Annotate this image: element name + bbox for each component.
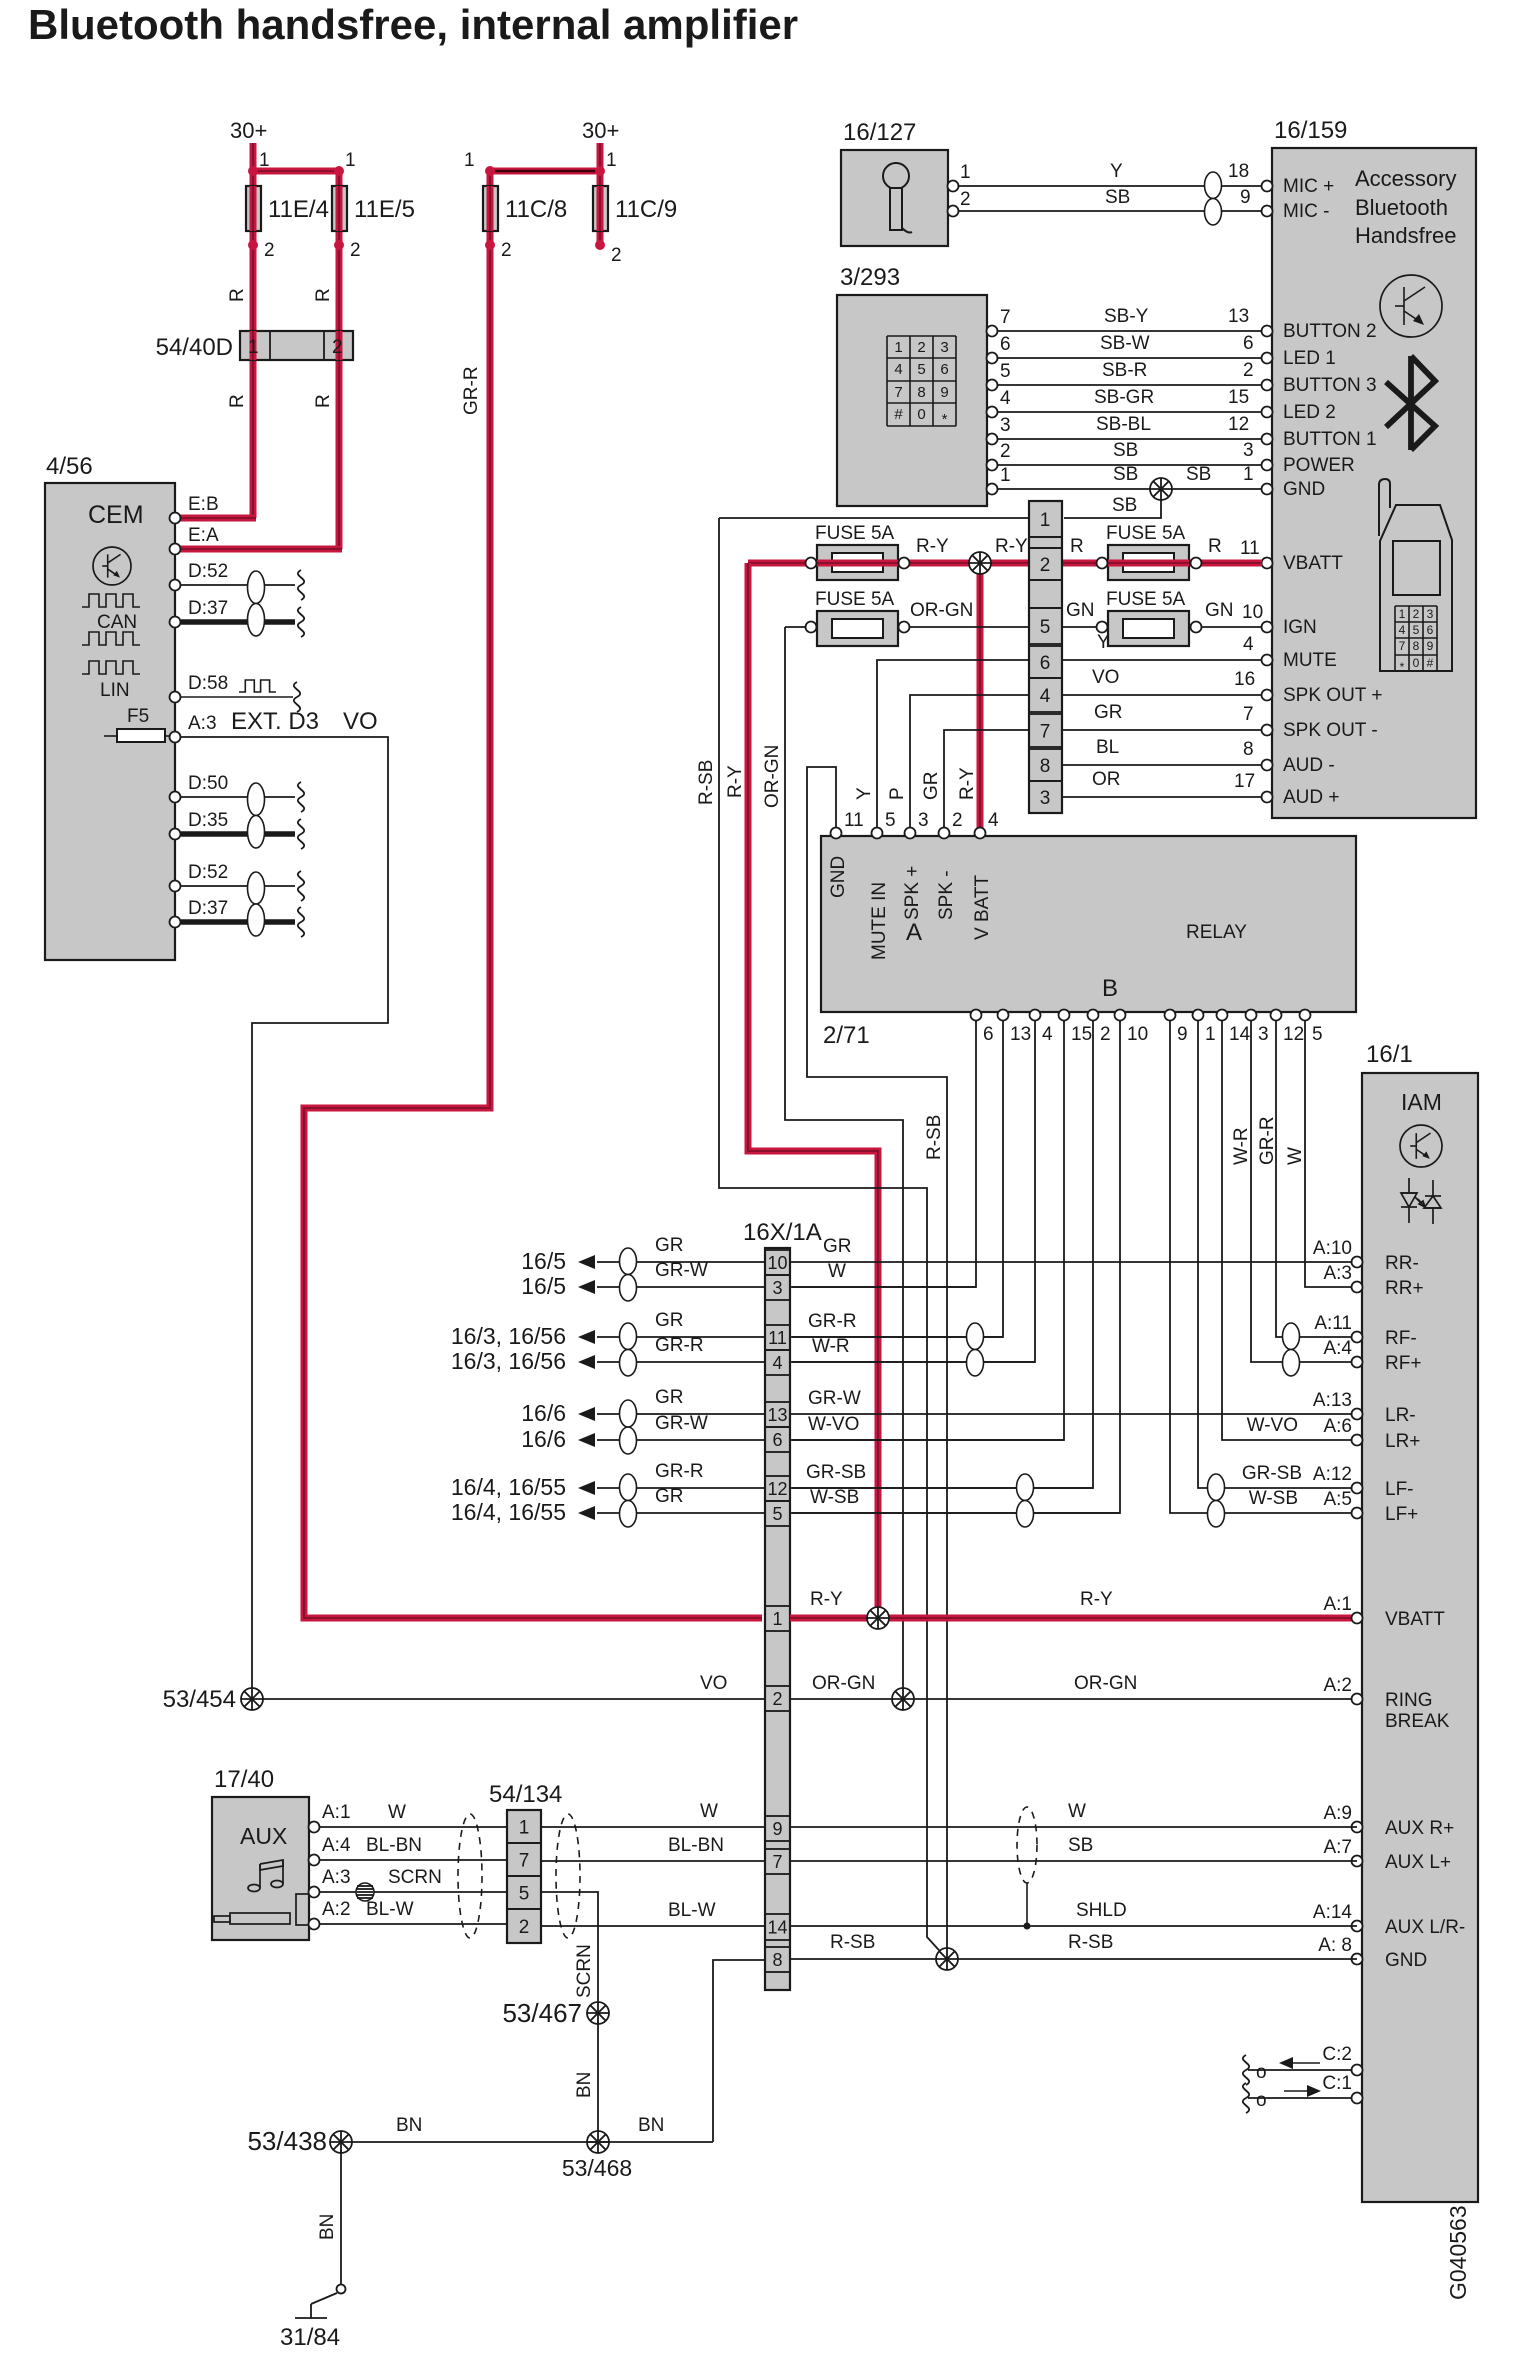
svg-text:4: 4 [1040, 686, 1051, 707]
svg-text:BUTTON 3: BUTTON 3 [1283, 375, 1377, 396]
svg-text:A:11: A:11 [1314, 1313, 1352, 1334]
svg-text:16/1: 16/1 [1366, 1041, 1413, 1068]
svg-text:31/84: 31/84 [280, 2324, 340, 2351]
svg-text:A:2: A:2 [1323, 1675, 1352, 1696]
svg-text:SPK OUT +: SPK OUT + [1283, 685, 1382, 706]
svg-text:SPK OUT -: SPK OUT - [1283, 720, 1378, 741]
svg-text:R-SB: R-SB [830, 1932, 875, 1953]
svg-text:4: 4 [1042, 1024, 1053, 1045]
svg-text:*: * [1400, 660, 1405, 674]
svg-text:9: 9 [1240, 187, 1251, 208]
svg-text:LED 1: LED 1 [1283, 348, 1336, 369]
svg-text:6: 6 [940, 361, 948, 378]
svg-text:RR+: RR+ [1385, 1278, 1424, 1299]
svg-text:16/159: 16/159 [1274, 117, 1347, 144]
svg-text:A:1: A:1 [1323, 1594, 1352, 1615]
svg-text:Y: Y [1110, 161, 1123, 182]
svg-text:5: 5 [1000, 361, 1011, 382]
svg-text:W: W [1068, 1801, 1086, 1822]
svg-text:GR-W: GR-W [808, 1388, 861, 1409]
svg-text:W-R: W-R [1231, 1127, 1252, 1165]
svg-text:SB: SB [1105, 187, 1130, 208]
svg-text:GR-R: GR-R [655, 1335, 704, 1356]
svg-text:5: 5 [772, 1504, 782, 1524]
svg-text:0: 0 [917, 406, 925, 423]
svg-text:16/4, 16/55: 16/4, 16/55 [451, 1474, 566, 1500]
svg-text:7: 7 [894, 384, 902, 401]
svg-text:SPK +: SPK + [902, 866, 923, 920]
svg-text:W-R: W-R [812, 1336, 850, 1357]
svg-text:GND: GND [1283, 479, 1325, 500]
svg-text:A:3: A:3 [322, 1867, 351, 1888]
svg-text:16/3, 16/56: 16/3, 16/56 [451, 1323, 566, 1349]
svg-text:10: 10 [1242, 602, 1263, 623]
svg-text:A:6: A:6 [1323, 1416, 1352, 1437]
svg-text:10: 10 [767, 1253, 787, 1273]
svg-text:7: 7 [1399, 639, 1406, 653]
svg-text:R-Y: R-Y [995, 536, 1028, 557]
svg-text:4: 4 [772, 1353, 782, 1373]
svg-text:11C/8: 11C/8 [505, 196, 567, 223]
svg-text:Accessory: Accessory [1355, 166, 1456, 191]
svg-text:2: 2 [772, 1689, 782, 1709]
svg-text:3: 3 [918, 810, 929, 831]
svg-text:Handsfree: Handsfree [1355, 223, 1457, 248]
svg-text:13: 13 [1228, 306, 1249, 327]
svg-text:D:52: D:52 [188, 561, 228, 582]
svg-text:16/6: 16/6 [521, 1400, 566, 1426]
svg-text:Y: Y [854, 787, 875, 800]
svg-text:2: 2 [1000, 441, 1011, 462]
svg-text:53/468: 53/468 [562, 2155, 632, 2181]
svg-text:MIC -: MIC - [1283, 201, 1329, 222]
svg-text:GR-SB: GR-SB [806, 1462, 866, 1483]
svg-text:6: 6 [983, 1024, 994, 1045]
svg-text:2: 2 [332, 337, 343, 358]
svg-text:B: B [1102, 975, 1118, 1002]
svg-text:5: 5 [519, 1884, 530, 1905]
svg-text:D:37: D:37 [188, 598, 228, 619]
svg-text:SB: SB [1113, 440, 1138, 461]
svg-text:16/5: 16/5 [521, 1248, 566, 1274]
svg-text:RF+: RF+ [1385, 1353, 1421, 1374]
svg-text:LF+: LF+ [1385, 1504, 1418, 1525]
svg-text:9: 9 [1177, 1024, 1188, 1045]
svg-text:LR-: LR- [1385, 1405, 1416, 1426]
svg-text:2: 2 [611, 245, 622, 266]
svg-text:D:58: D:58 [188, 673, 228, 694]
svg-text:3: 3 [1243, 440, 1254, 461]
svg-text:BL-W: BL-W [366, 1899, 414, 1920]
svg-text:A:4: A:4 [1323, 1338, 1352, 1359]
svg-text:2: 2 [350, 240, 361, 261]
svg-text:2: 2 [1413, 607, 1420, 621]
svg-text:LR+: LR+ [1385, 1431, 1420, 1452]
svg-text:R: R [1070, 536, 1084, 557]
svg-text:GN: GN [1205, 600, 1234, 621]
svg-text:E:A: E:A [188, 525, 219, 546]
svg-text:A:2: A:2 [322, 1899, 351, 1920]
svg-text:OR-GN: OR-GN [762, 745, 783, 808]
svg-text:8: 8 [1040, 756, 1051, 777]
svg-text:SPK -: SPK - [936, 870, 957, 920]
svg-text:2: 2 [264, 240, 275, 261]
svg-text:BUTTON 2: BUTTON 2 [1283, 321, 1377, 342]
svg-text:8: 8 [1413, 639, 1420, 653]
svg-text:16: 16 [1234, 669, 1255, 690]
svg-text:MIC +: MIC + [1283, 176, 1334, 197]
svg-text:30+: 30+ [230, 118, 267, 143]
svg-text:SB-W: SB-W [1100, 333, 1150, 354]
svg-text:BUTTON 1: BUTTON 1 [1283, 429, 1377, 450]
svg-text:R: R [313, 288, 334, 302]
svg-text:GR: GR [655, 1310, 684, 1331]
svg-text:A:3: A:3 [1323, 1263, 1352, 1284]
svg-text:CEM: CEM [88, 501, 144, 529]
svg-text:R-Y: R-Y [1080, 1589, 1113, 1610]
svg-text:16/5: 16/5 [521, 1273, 566, 1299]
svg-text:3: 3 [1258, 1024, 1269, 1045]
svg-text:A: A [906, 919, 922, 946]
svg-text:SB: SB [1113, 464, 1138, 485]
svg-text:8: 8 [1243, 739, 1254, 760]
svg-text:FUSE 5A: FUSE 5A [1106, 523, 1186, 544]
svg-text:7: 7 [519, 1851, 530, 1872]
svg-text:1: 1 [1243, 464, 1254, 485]
svg-text:VO: VO [700, 1673, 727, 1694]
svg-text:2: 2 [501, 240, 512, 261]
svg-text:5: 5 [917, 361, 925, 378]
svg-text:GR: GR [823, 1236, 852, 1257]
svg-text:16/6: 16/6 [521, 1426, 566, 1452]
svg-text:POWER: POWER [1283, 455, 1355, 476]
svg-text:7: 7 [1000, 307, 1011, 328]
svg-text:A:4: A:4 [322, 1835, 351, 1856]
svg-text:W: W [388, 1802, 406, 1823]
svg-text:GR-W: GR-W [655, 1260, 708, 1281]
svg-text:GR-R: GR-R [1257, 1116, 1278, 1165]
svg-text:GR-R: GR-R [461, 366, 482, 415]
svg-text:A:10: A:10 [1313, 1238, 1352, 1259]
svg-text:BN: BN [317, 2214, 338, 2240]
svg-text:R-SB: R-SB [696, 760, 717, 805]
svg-text:BL-BN: BL-BN [668, 1835, 724, 1856]
svg-text:AUD -: AUD - [1283, 755, 1335, 776]
svg-text:GR-R: GR-R [808, 1311, 857, 1332]
svg-text:SB: SB [1186, 464, 1211, 485]
svg-text:12: 12 [767, 1479, 787, 1499]
svg-text:R-Y: R-Y [725, 765, 746, 798]
svg-text:6: 6 [1243, 333, 1254, 354]
svg-text:BN: BN [396, 2115, 422, 2136]
svg-text:8: 8 [772, 1950, 782, 1970]
svg-text:1: 1 [772, 1609, 782, 1629]
svg-text:16X/1A: 16X/1A [743, 1219, 822, 1246]
svg-text:13: 13 [1010, 1024, 1031, 1045]
svg-text:1: 1 [960, 162, 971, 183]
svg-text:17: 17 [1234, 771, 1255, 792]
svg-text:SB-R: SB-R [1102, 360, 1147, 381]
svg-text:1: 1 [1000, 465, 1011, 486]
svg-text:AUX R+: AUX R+ [1385, 1818, 1454, 1839]
svg-text:D:35: D:35 [188, 810, 228, 831]
svg-text:A:5: A:5 [1323, 1489, 1352, 1510]
svg-text:MUTE: MUTE [1283, 650, 1337, 671]
svg-text:14: 14 [767, 1918, 787, 1938]
svg-text:2: 2 [917, 339, 925, 356]
svg-text:W-SB: W-SB [1249, 1488, 1298, 1509]
svg-text:D:52: D:52 [188, 862, 228, 883]
svg-text:LF-: LF- [1385, 1479, 1414, 1500]
svg-text:2/71: 2/71 [823, 1022, 870, 1049]
svg-text:AUD +: AUD + [1283, 787, 1340, 808]
svg-text:53/438: 53/438 [247, 2126, 327, 2156]
svg-text:*: * [942, 411, 948, 428]
svg-text:1: 1 [519, 1818, 530, 1839]
svg-text:Bluetooth: Bluetooth [1355, 195, 1448, 220]
svg-text:11: 11 [844, 810, 864, 831]
svg-text:VO: VO [343, 708, 378, 735]
svg-text:IGN: IGN [1283, 617, 1317, 638]
svg-text:1: 1 [259, 150, 270, 171]
svg-text:AUX: AUX [240, 1823, 287, 1849]
svg-text:SHLD: SHLD [1076, 1900, 1127, 1921]
svg-text:Y: Y [1097, 632, 1110, 653]
svg-text:53/467: 53/467 [502, 1998, 582, 2028]
svg-text:A:12: A:12 [1313, 1464, 1352, 1485]
svg-text:3: 3 [940, 339, 948, 356]
svg-text:SB: SB [1068, 1835, 1093, 1856]
svg-text:W-VO: W-VO [808, 1414, 859, 1435]
svg-text:11: 11 [768, 1328, 787, 1348]
svg-text:R: R [227, 394, 248, 408]
svg-text:6: 6 [1040, 653, 1051, 674]
svg-text:D:37: D:37 [188, 898, 228, 919]
svg-text:4: 4 [1243, 634, 1254, 655]
svg-text:12: 12 [1283, 1024, 1304, 1045]
svg-text:RR-: RR- [1385, 1253, 1419, 1274]
svg-text:W: W [1285, 1147, 1306, 1165]
svg-text:W-SB: W-SB [810, 1487, 859, 1508]
svg-text:D:50: D:50 [188, 773, 228, 794]
svg-text:A:13: A:13 [1313, 1390, 1352, 1411]
svg-text:o: o [1256, 2062, 1267, 2083]
svg-text:RF-: RF- [1385, 1328, 1417, 1349]
svg-text:0: 0 [1413, 656, 1420, 670]
svg-text:53/454: 53/454 [163, 1686, 236, 1713]
svg-text:IAM: IAM [1401, 1089, 1442, 1115]
svg-text:FUSE 5A: FUSE 5A [815, 523, 895, 544]
svg-text:1: 1 [606, 150, 617, 171]
svg-text:LIN: LIN [100, 680, 130, 701]
svg-text:GR-W: GR-W [655, 1413, 708, 1434]
svg-text:3: 3 [772, 1278, 782, 1298]
svg-text:VBATT: VBATT [1283, 553, 1343, 574]
svg-text:1: 1 [894, 339, 902, 356]
svg-text:#: # [1427, 656, 1434, 670]
svg-text:12: 12 [1228, 414, 1249, 435]
svg-text:10: 10 [1127, 1024, 1148, 1045]
svg-text:GR-SB: GR-SB [1242, 1463, 1302, 1484]
svg-text:GR-R: GR-R [655, 1461, 704, 1482]
svg-text:GR: GR [921, 772, 942, 801]
svg-text:OR-GN: OR-GN [910, 600, 973, 621]
svg-text:SB: SB [1112, 495, 1137, 516]
svg-text:11C/9: 11C/9 [615, 196, 677, 223]
svg-text:SB-Y: SB-Y [1104, 306, 1149, 327]
svg-text:5: 5 [1413, 623, 1420, 637]
svg-text:5: 5 [885, 810, 896, 831]
svg-text:4: 4 [1399, 623, 1406, 637]
svg-text:54/134: 54/134 [489, 1781, 562, 1808]
svg-text:4: 4 [988, 810, 999, 831]
svg-text:2: 2 [519, 1917, 530, 1938]
svg-text:R: R [1208, 536, 1222, 557]
svg-text:2: 2 [960, 189, 971, 210]
svg-text:1: 1 [1399, 607, 1406, 621]
svg-text:7: 7 [1243, 704, 1254, 725]
svg-text:5: 5 [1040, 617, 1051, 638]
svg-text:R-SB: R-SB [924, 1115, 945, 1160]
svg-text:R: R [227, 288, 248, 302]
svg-text:AUX L+: AUX L+ [1385, 1852, 1451, 1873]
svg-text:30+: 30+ [582, 118, 619, 143]
svg-text:Bluetooth handsfree, internal: Bluetooth handsfree, internal amplifier [28, 1, 798, 48]
svg-text:W: W [700, 1801, 718, 1822]
svg-text:SCRN: SCRN [574, 1944, 595, 1998]
svg-text:R: R [313, 394, 334, 408]
svg-text:5: 5 [1312, 1024, 1323, 1045]
svg-text:C:2: C:2 [1322, 2044, 1352, 2065]
svg-text:P: P [887, 787, 908, 800]
svg-text:FUSE 5A: FUSE 5A [815, 589, 895, 610]
svg-text:3: 3 [1000, 415, 1011, 436]
svg-text:R-Y: R-Y [810, 1589, 843, 1610]
svg-text:8: 8 [917, 384, 925, 401]
svg-text:W-VO: W-VO [1247, 1415, 1298, 1436]
svg-text:4: 4 [894, 361, 902, 378]
svg-text:RING: RING [1385, 1690, 1433, 1711]
svg-text:SCRN: SCRN [388, 1867, 442, 1888]
svg-text:2: 2 [1100, 1024, 1111, 1045]
svg-text:A:9: A:9 [1323, 1803, 1352, 1824]
svg-text:BL-W: BL-W [668, 1900, 716, 1921]
svg-text:A:14: A:14 [1313, 1902, 1353, 1923]
svg-text:6: 6 [1427, 623, 1434, 637]
svg-text:4: 4 [1000, 388, 1011, 409]
svg-text:14: 14 [1229, 1024, 1251, 1045]
svg-text:11E/5: 11E/5 [354, 196, 415, 223]
svg-text:GR: GR [1094, 702, 1123, 723]
svg-text:E:B: E:B [188, 494, 219, 515]
svg-text:VO: VO [1092, 667, 1119, 688]
svg-text:R-Y: R-Y [957, 767, 978, 800]
svg-text:15: 15 [1071, 1024, 1092, 1045]
svg-text:G040563: G040563 [1445, 2205, 1471, 2300]
svg-text:1: 1 [248, 337, 259, 358]
svg-text:BL: BL [1096, 737, 1119, 758]
svg-text:EXT. D3: EXT. D3 [231, 708, 319, 735]
svg-text:1: 1 [464, 150, 475, 171]
svg-text:RELAY: RELAY [1186, 922, 1247, 943]
svg-text:16/4, 16/55: 16/4, 16/55 [451, 1499, 566, 1525]
svg-text:6: 6 [772, 1430, 782, 1450]
svg-text:R-Y: R-Y [916, 536, 949, 557]
svg-text:GND: GND [1385, 1950, 1427, 1971]
svg-text:LED 2: LED 2 [1283, 402, 1336, 423]
svg-text:9: 9 [1427, 639, 1434, 653]
svg-text:3/293: 3/293 [840, 264, 900, 291]
svg-text:VBATT: VBATT [1385, 1609, 1445, 1630]
svg-text:CAN: CAN [97, 612, 137, 633]
svg-text:GR: GR [655, 1387, 684, 1408]
svg-text:MUTE IN: MUTE IN [869, 882, 890, 960]
svg-text:A:7: A:7 [1323, 1837, 1352, 1858]
svg-text:BL-BN: BL-BN [366, 1835, 422, 1856]
svg-text:7: 7 [772, 1852, 782, 1872]
svg-text:C:1: C:1 [1322, 2073, 1352, 2094]
svg-text:GR: GR [655, 1235, 684, 1256]
svg-text:3: 3 [1040, 788, 1051, 809]
svg-text:1: 1 [1205, 1024, 1216, 1045]
svg-text:16/127: 16/127 [843, 119, 916, 146]
svg-text:A:1: A:1 [322, 1802, 351, 1823]
svg-text:R-SB: R-SB [1068, 1932, 1113, 1953]
svg-text:BREAK: BREAK [1385, 1711, 1450, 1732]
svg-text:16/3, 16/56: 16/3, 16/56 [451, 1348, 566, 1374]
svg-text:V BATT: V BATT [972, 875, 993, 940]
svg-text:o: o [1256, 2090, 1267, 2111]
svg-text:9: 9 [772, 1819, 782, 1839]
svg-text:9: 9 [940, 384, 948, 401]
svg-text:7: 7 [1040, 722, 1051, 743]
svg-text:A:3: A:3 [188, 713, 217, 734]
svg-text:18: 18 [1228, 161, 1249, 182]
svg-text:FUSE 5A: FUSE 5A [1106, 589, 1186, 610]
svg-text:6: 6 [1000, 334, 1011, 355]
svg-text:F5: F5 [127, 706, 149, 727]
svg-text:#: # [894, 406, 903, 423]
svg-text:1: 1 [1040, 510, 1051, 531]
svg-text:BN: BN [638, 2115, 664, 2136]
svg-text:AUX L/R-: AUX L/R- [1385, 1917, 1465, 1938]
svg-text:11: 11 [1240, 538, 1260, 559]
svg-text:17/40: 17/40 [214, 1766, 274, 1793]
svg-text:1: 1 [345, 150, 356, 171]
svg-text:W: W [828, 1261, 846, 1282]
svg-text:2: 2 [952, 810, 963, 831]
svg-text:15: 15 [1228, 387, 1249, 408]
svg-text:11E/4: 11E/4 [268, 196, 329, 223]
svg-text:GR: GR [655, 1486, 684, 1507]
svg-text:SB-BL: SB-BL [1096, 414, 1151, 435]
svg-text:OR-GN: OR-GN [812, 1673, 875, 1694]
svg-text:GN: GN [1066, 600, 1095, 621]
svg-text:54/40D: 54/40D [156, 334, 233, 361]
svg-text:2: 2 [1040, 555, 1051, 576]
svg-text:2: 2 [1243, 360, 1254, 381]
svg-text:OR: OR [1092, 769, 1121, 790]
svg-text:4/56: 4/56 [46, 453, 93, 480]
svg-text:SB-GR: SB-GR [1094, 387, 1154, 408]
svg-text:OR-GN: OR-GN [1074, 1673, 1137, 1694]
svg-text:A: 8: A: 8 [1318, 1935, 1352, 1956]
svg-text:3: 3 [1427, 607, 1434, 621]
svg-text:BN: BN [574, 2072, 595, 2098]
svg-text:GND: GND [828, 856, 849, 898]
svg-text:13: 13 [767, 1405, 787, 1425]
